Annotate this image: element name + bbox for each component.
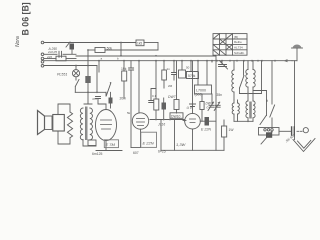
wire rail y50 bbox=[88, 49, 95, 51]
capacitor C9 bbox=[173, 61, 175, 72]
svg-text:DW7: DW7 bbox=[168, 95, 176, 99]
svg-text:1,3W: 1,3W bbox=[176, 142, 187, 147]
IF transformer IF1 secondary bbox=[238, 103, 240, 114]
svg-text:20m: 20m bbox=[120, 97, 127, 101]
heater rail wire y56 bbox=[76, 55, 216, 57]
antenna A1 bbox=[296, 48, 298, 61]
wire bbox=[200, 120, 216, 122]
terminal T2 (220V) bbox=[41, 53, 44, 56]
capacitor C2 bbox=[59, 51, 62, 57]
svg-text:AL734: AL734 bbox=[234, 46, 243, 50]
svg-text:Schaltb.: Schaltb. bbox=[234, 51, 245, 55]
switch S4 bbox=[260, 116, 266, 125]
svg-text:(500): (500) bbox=[195, 93, 203, 97]
wire x212 bbox=[211, 61, 213, 62]
terminal T5 bbox=[41, 65, 44, 68]
wire bbox=[192, 104, 194, 113]
ground symbol bbox=[293, 139, 315, 152]
svg-text:35n: 35n bbox=[217, 93, 223, 97]
main rail wire y60.5 bbox=[44, 60, 292, 62]
svg-text:220: 220 bbox=[46, 55, 52, 59]
svg-text:2x0,05: 2x0,05 bbox=[47, 50, 57, 54]
svg-text:B 06 [B]: B 06 [B] bbox=[21, 2, 31, 35]
wire speaker top loop bbox=[58, 104, 70, 114]
wire long vertical x216 bbox=[215, 56, 217, 151]
svg-text:0,1: 0,1 bbox=[152, 94, 157, 98]
svg-text:U c: U c bbox=[187, 106, 193, 110]
bottom rail wire bbox=[161, 149, 224, 151]
resistor R11 DW bbox=[201, 94, 203, 102]
wire rail end bbox=[292, 60, 297, 62]
transformer core bbox=[86, 107, 87, 140]
wire corner bbox=[151, 89, 156, 101]
wire bbox=[58, 131, 70, 144]
svg-text:E 22N: E 22N bbox=[143, 141, 154, 146]
speaker LS bbox=[38, 111, 45, 135]
svg-text:5k: 5k bbox=[127, 111, 131, 115]
capacitor C10 box bbox=[181, 61, 183, 70]
svg-text:570k: 570k bbox=[188, 74, 196, 78]
resistor R3 19k bbox=[123, 61, 125, 71]
svg-text:lt: lt bbox=[266, 99, 269, 103]
svg-text:2M: 2M bbox=[168, 84, 173, 88]
wire bbox=[96, 66, 98, 93]
wire bbox=[87, 50, 89, 66]
trimmer capacitor CT2 bbox=[209, 105, 214, 107]
wire bbox=[44, 58, 56, 60]
wire net y93.5 bbox=[240, 61, 262, 94]
resistor R1 1k5 bbox=[136, 40, 144, 46]
wire y121.3 bbox=[234, 120, 253, 122]
IF transformer IF2 secondary bbox=[253, 101, 255, 118]
label E 7M bbox=[104, 140, 118, 148]
svg-text:a: a bbox=[101, 57, 103, 61]
svg-text:c: c bbox=[207, 106, 209, 110]
IF transformer IF2 primary bbox=[246, 101, 248, 118]
svg-text:Nora: Nora bbox=[15, 36, 21, 47]
wire bbox=[190, 61, 192, 72]
output transformer TR1 primary bbox=[80, 108, 83, 140]
coil L1 bbox=[232, 70, 234, 92]
pickup jack circle bbox=[303, 128, 308, 133]
resistor R9 bbox=[163, 61, 165, 70]
dial lamp LP1 bbox=[75, 66, 77, 70]
wire bbox=[206, 61, 208, 85]
svg-text:(B): (B) bbox=[234, 35, 238, 39]
capacitor C1 electrolytic bbox=[70, 44, 75, 50]
wire bbox=[44, 53, 57, 55]
trimmer capacitor CT1 bbox=[221, 61, 223, 64]
svg-text:50k: 50k bbox=[107, 47, 113, 51]
tube V2 E22N bbox=[132, 113, 148, 129]
resistor R10 bbox=[222, 126, 227, 137]
svg-text:50: 50 bbox=[186, 66, 190, 70]
svg-text:47n: 47n bbox=[92, 97, 97, 101]
resistor R7 bbox=[174, 100, 179, 110]
coil L3 bbox=[253, 69, 255, 87]
volume pot P1 bbox=[266, 132, 272, 138]
IF transformer IF1 primary bbox=[232, 103, 234, 114]
wire bbox=[157, 43, 159, 51]
capacitor C5 bbox=[96, 97, 101, 99]
svg-text:PL551: PL551 bbox=[57, 73, 67, 77]
capacitor C8 electrolytic bbox=[205, 117, 210, 126]
wire loop volume bbox=[259, 128, 280, 136]
wire bbox=[120, 43, 122, 56]
capacitor C3 block 2x0,1 bbox=[56, 56, 66, 61]
wire bbox=[138, 61, 140, 113]
svg-text:6m125: 6m125 bbox=[92, 152, 102, 156]
switch S5 bbox=[271, 61, 273, 104]
svg-text:1W: 1W bbox=[229, 128, 235, 132]
wire transformer bottom bbox=[83, 140, 96, 147]
capacitor C7 electrolytic bbox=[162, 103, 167, 110]
resistor R4 field coil zigzag bbox=[67, 112, 72, 138]
svg-text:607: 607 bbox=[133, 151, 139, 155]
grid cap G bbox=[190, 104, 196, 107]
wire bbox=[192, 129, 194, 150]
svg-text:DW10: DW10 bbox=[171, 114, 181, 118]
terminal T3 (110V) bbox=[41, 57, 44, 60]
svg-text:19k: 19k bbox=[121, 67, 127, 71]
wire bbox=[84, 92, 92, 104]
wire bbox=[71, 50, 73, 55]
svg-text:Reihe: Reihe bbox=[234, 40, 242, 44]
capacitor C12 bbox=[130, 61, 132, 68]
wire bbox=[211, 94, 213, 104]
wire rail y42 bbox=[44, 42, 136, 44]
capacitor C4 electrolytic bbox=[87, 66, 89, 77]
label 570k dashed bbox=[187, 72, 199, 79]
output tube V1 E7M bbox=[96, 110, 117, 141]
wire x174.5 bbox=[174, 120, 176, 151]
wire arrow into tube3 bbox=[183, 120, 186, 122]
label E 22N bbox=[141, 132, 157, 147]
wire bbox=[98, 61, 100, 72]
wire to cap bbox=[279, 130, 291, 132]
output transformer TR1 secondary bbox=[90, 108, 93, 140]
tube location table bbox=[213, 34, 247, 56]
resistor R5 bbox=[88, 140, 96, 146]
svg-text:1n: 1n bbox=[167, 67, 171, 71]
sub rail wire y65.5 bbox=[44, 65, 97, 67]
terminal T1 (mains A) bbox=[41, 41, 44, 44]
resistor R6 bbox=[154, 99, 159, 110]
tube V3 E22N bbox=[185, 113, 201, 129]
switch S1 bbox=[75, 77, 77, 80]
wire y92.3 bbox=[75, 91, 106, 93]
terminal T4 bbox=[41, 61, 44, 64]
capacitor C13 bbox=[149, 101, 154, 103]
wire net y90.5 bbox=[253, 91, 267, 116]
capacitor C6 electrolytic bbox=[109, 98, 113, 104]
oscillator coil box L7000 bbox=[197, 61, 199, 85]
wire grid line y119.5 bbox=[150, 119, 184, 121]
core IF2 bbox=[250, 102, 251, 118]
antenna arrow bbox=[284, 59, 288, 62]
wire bottom rail under tube1 bbox=[96, 150, 122, 152]
resistor R8 DW10 bbox=[170, 113, 183, 119]
wavechange switch S3 bbox=[240, 76, 245, 89]
trimmer dots bbox=[264, 129, 266, 131]
switch S2 bbox=[106, 84, 110, 96]
svg-text:1k5: 1k5 bbox=[137, 42, 142, 46]
svg-text:E 7M: E 7M bbox=[106, 142, 116, 147]
junction dots on main rail bbox=[75, 42, 276, 67]
capacitor C11 bbox=[294, 61, 296, 127]
coil L2 bbox=[246, 69, 248, 87]
svg-text:b: b bbox=[117, 57, 119, 61]
resistor R2 50k bbox=[95, 48, 105, 53]
trimmer capacitor CT3 bbox=[215, 105, 220, 107]
svg-text:E 22N: E 22N bbox=[201, 128, 211, 132]
